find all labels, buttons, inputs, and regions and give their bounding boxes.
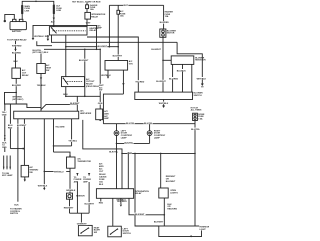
svg-text:SW: SW (94, 232, 97, 234)
svg-text:4WD: 4WD (99, 165, 104, 168)
svg-text:BLU/RED: BLU/RED (160, 22, 170, 24)
svg-text:TO EFI MAIN RELAY: TO EFI MAIN RELAY (7, 38, 27, 41)
svg-text:GRN/WHT: GRN/WHT (77, 224, 88, 226)
svg-text:GAUGE: GAUGE (99, 175, 107, 178)
svg-text:RED: RED (8, 127, 13, 129)
svg-text:BLK/WHT: BLK/WHT (135, 214, 145, 216)
svg-text:BLU/YEL: BLU/YEL (191, 129, 201, 131)
svg-text:LAMP: LAMP (154, 136, 160, 139)
svg-text:YEL/BLU: YEL/BLU (68, 141, 77, 143)
svg-text:SENSOR: SENSOR (76, 195, 85, 197)
svg-text:BLK/WHT: BLK/WHT (166, 181, 176, 183)
svg-text:BLU/YEL: BLU/YEL (144, 123, 154, 125)
svg-text:BLU/WHT: BLU/WHT (85, 203, 95, 205)
svg-text:SW: SW (99, 90, 102, 92)
svg-text:WHT/BLU: WHT/BLU (117, 200, 127, 202)
svg-text:A/T:: A/T: (99, 162, 103, 165)
svg-text:YEL/BLK: YEL/BLK (37, 85, 46, 87)
svg-text:AMPLIFIER: AMPLIFIER (80, 112, 92, 115)
svg-text:15A: 15A (165, 15, 169, 18)
svg-text:AMP: AMP (74, 180, 79, 183)
svg-text:BLU: BLU (44, 52, 49, 54)
svg-text:BLK/YEL: BLK/YEL (125, 143, 135, 145)
svg-text:THERMISTOR: THERMISTOR (77, 161, 91, 163)
svg-text:LIGHTS: LIGHTS (170, 193, 178, 195)
svg-text:BLU/RED: BLU/RED (169, 78, 179, 80)
svg-text:WHT/RED: WHT/RED (12, 45, 22, 47)
svg-text:SWITCH: SWITCH (10, 213, 19, 215)
svg-text:RELAY: RELAY (91, 15, 98, 18)
svg-text:BLK: BLK (99, 184, 104, 186)
svg-text:BLK/WHT: BLK/WHT (113, 56, 123, 58)
svg-text:WHT/BLK: WHT/BLK (159, 103, 169, 105)
svg-text:BLK/WHT: BLK/WHT (70, 103, 80, 105)
svg-text:GRN: GRN (63, 94, 68, 96)
svg-text:(M/T ONLY): (M/T ONLY) (12, 99, 23, 101)
svg-text:WHT: WHT (123, 5, 128, 7)
svg-text:A/C: A/C (99, 168, 103, 171)
svg-text:AMP: AMP (97, 27, 102, 30)
svg-text:HOT IN ACC, START OR RUN: HOT IN ACC, START OR RUN (72, 0, 101, 3)
svg-text:WHT: WHT (86, 23, 91, 25)
svg-text:BLK: BLK (14, 61, 19, 63)
svg-text:BLK/RED: BLK/RED (12, 52, 22, 54)
svg-text:GRN: GRN (98, 103, 103, 105)
svg-text:WHT/BLK: WHT/BLK (34, 36, 44, 38)
svg-text:RED/GRN: RED/GRN (167, 208, 177, 210)
svg-text:WHT/BLK: WHT/BLK (38, 185, 48, 187)
svg-text:(M/T ONLY): (M/T ONLY) (33, 52, 44, 54)
svg-text:SWITCH: SWITCH (194, 95, 203, 97)
svg-text:RED/WHT: RED/WHT (64, 207, 74, 209)
svg-text:BLK: BLK (128, 152, 133, 154)
svg-text:LINK: LINK (56, 10, 61, 12)
svg-text:WHT/BLK: WHT/BLK (101, 75, 111, 77)
svg-text:10A: 10A (120, 15, 124, 18)
svg-text:LIGHT: LIGHT (200, 229, 207, 231)
svg-text:WHT/BLU: WHT/BLU (54, 172, 64, 174)
svg-text:RED: RED (45, 36, 50, 38)
svg-text:BLU/WHT: BLU/WHT (79, 60, 89, 62)
svg-text:YEL/GRN: YEL/GRN (55, 126, 65, 128)
svg-text:BLU/WHT: BLU/WHT (151, 49, 161, 51)
svg-text:BLK/YEL: BLK/YEL (109, 151, 119, 153)
svg-text:SWITCH: SWITCH (123, 233, 132, 235)
svg-text:RELAY: RELAY (135, 192, 142, 195)
svg-text:WHT/BLK: WHT/BLK (197, 78, 207, 80)
svg-text:LAMP: LAMP (121, 136, 127, 139)
svg-text:RELAY: RELAY (99, 173, 106, 176)
svg-text:LINK: LINK (25, 10, 30, 12)
svg-text:AMP: AMP (83, 180, 88, 183)
svg-text:GRN: GRN (2, 114, 7, 116)
svg-text:BLK/RED: BLK/RED (12, 85, 22, 87)
svg-text:SW: SW (29, 172, 32, 174)
svg-text:BLU/WHT: BLU/WHT (98, 46, 108, 48)
svg-text:BLU/YEL: BLU/YEL (126, 123, 136, 125)
svg-text:7.5A: 7.5A (198, 118, 203, 121)
svg-text:RED: RED (2, 147, 7, 149)
svg-text:ALL TIMES: ALL TIMES (191, 109, 202, 112)
svg-text:BLK: BLK (14, 205, 19, 207)
svg-text:YEL/RED: YEL/RED (135, 81, 144, 83)
svg-text:BATTERY: BATTERY (12, 30, 22, 33)
svg-text:BLU/WHT: BLU/WHT (156, 81, 166, 83)
svg-text:RELAY: RELAY (90, 29, 97, 32)
svg-text:AMP: AMP (104, 117, 109, 120)
svg-text:10A: 10A (99, 181, 103, 184)
svg-text:BLU/BLK: BLU/BLK (177, 70, 187, 72)
svg-text:KEY LAMP: KEY LAMP (2, 174, 13, 177)
svg-text:RED: RED (99, 203, 104, 205)
svg-text:BLK/WHT: BLK/WHT (17, 125, 27, 127)
svg-text:BLK/WHT: BLK/WHT (154, 221, 164, 223)
svg-text:RESISTOR: RESISTOR (195, 60, 206, 62)
svg-text:VSV: VSV (129, 63, 134, 65)
svg-text:MOTOR: MOTOR (167, 33, 175, 35)
svg-text:GRN/BLK: GRN/BLK (66, 190, 76, 192)
svg-text:RELAY: RELAY (22, 74, 29, 77)
svg-text:10A: 10A (90, 8, 94, 11)
svg-text:SW: SW (46, 70, 49, 72)
